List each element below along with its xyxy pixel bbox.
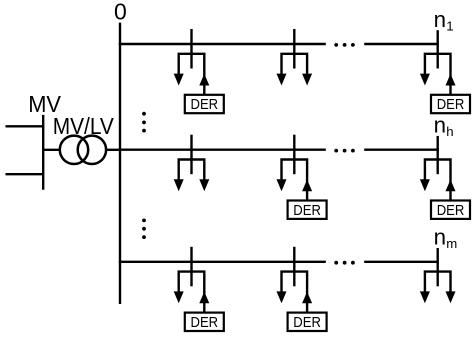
transformer primary winding	[60, 136, 88, 164]
branch bracket at feeder 1 node b	[282, 54, 308, 75]
DER box at feeder m node a	[185, 313, 224, 331]
transformer secondary winding	[78, 136, 106, 164]
feeder 1 wire: bus to gap	[119, 43, 326, 45]
end node vertical at nh	[437, 136, 439, 174]
feeder 1 ellipsis	[334, 43, 354, 47]
MV grid stub lower	[6, 173, 44, 175]
svg-text:DER: DER	[191, 315, 219, 331]
branch bracket at nm	[425, 272, 451, 293]
branch bracket at feeder h node b	[282, 160, 308, 201]
load arrow (down) right at feeder h node a	[199, 179, 209, 191]
DER box at feeder 1 node a	[185, 95, 224, 113]
svg-text:1: 1	[446, 18, 453, 33]
load arrow (down) left at feeder 1 node a	[174, 74, 184, 86]
svg-text:DER: DER	[293, 315, 321, 331]
branch bracket at feeder m node a	[179, 272, 205, 313]
DER box at n1	[431, 95, 470, 113]
branch bracket at n1	[425, 54, 451, 95]
DER injection arrow (up) at nh	[446, 180, 456, 192]
svg-text:n: n	[434, 113, 446, 138]
load arrow (down) left at feeder m node a	[174, 291, 184, 303]
svg-text:MV/LV: MV/LV	[53, 113, 115, 139]
svg-text:h: h	[446, 124, 453, 139]
DER box at nh	[431, 201, 470, 219]
DER box at feeder h node b	[288, 201, 327, 219]
svg-text:DER: DER	[437, 97, 465, 113]
feeder h wire: bus to gap	[119, 148, 326, 150]
svg-text:DER: DER	[437, 203, 465, 219]
load arrow (down) left at nm	[420, 291, 430, 303]
DER injection arrow (up) at n1	[446, 74, 456, 86]
tap wire at feeder m node b	[293, 247, 295, 286]
label n1	[434, 7, 454, 34]
branch bracket at nh	[425, 160, 451, 201]
svg-text:n: n	[434, 225, 446, 250]
vertical ellipsis (feeders 1..h)	[142, 112, 146, 133]
feeder m ellipsis	[334, 261, 354, 265]
wire: MV bus to transformer	[43, 149, 61, 151]
MV grid stub upper	[6, 125, 44, 127]
svg-text:0: 0	[114, 0, 127, 24]
load arrow (down) left at feeder h node b	[277, 179, 287, 191]
tap wire at feeder h node a	[190, 135, 192, 175]
load arrow (down) right at nm	[446, 291, 456, 303]
svg-text:DER: DER	[293, 203, 321, 219]
MV busbar	[42, 115, 44, 190]
DER injection arrow (up) at feeder m node b	[302, 292, 312, 304]
DER box at feeder m node b	[288, 313, 327, 331]
DER injection arrow (up) at feeder h node b	[302, 180, 312, 192]
main LV bus (node 0 vertical)	[119, 23, 121, 304]
tap wire at feeder m node a	[190, 247, 192, 286]
end node vertical at n1	[437, 30, 439, 68]
DER injection arrow (up) at feeder 1 node a	[199, 74, 209, 86]
feeder 1 wire: gap to end node	[364, 43, 439, 45]
tap wire at feeder 1 node b	[293, 29, 295, 69]
load arrow (down) right at feeder 1 node b	[302, 74, 312, 86]
wire: transformer to LV bus	[105, 149, 120, 151]
load arrow (down) left at feeder m node b	[277, 291, 287, 303]
feeder h ellipsis	[334, 149, 354, 153]
load arrow (down) left at n1	[420, 74, 430, 86]
feeder m wire: gap to end node	[364, 261, 439, 263]
branch bracket at feeder m node b	[282, 272, 308, 313]
load arrow (down) left at feeder h node a	[174, 179, 184, 191]
tap wire at feeder 1 node a	[190, 29, 192, 69]
tap wire at feeder h node b	[293, 135, 295, 175]
svg-text:n: n	[434, 7, 446, 32]
load arrow (down) left at feeder 1 node b	[277, 74, 287, 86]
DER injection arrow (up) at feeder m node a	[199, 292, 209, 304]
feeder m wire: bus to gap	[119, 261, 326, 263]
vertical ellipsis (feeders h..m)	[142, 219, 146, 240]
feeder h wire: gap to end node	[364, 148, 439, 150]
branch bracket at feeder 1 node a	[179, 54, 205, 95]
label nh	[434, 113, 454, 140]
label nm	[434, 225, 458, 252]
svg-text:m: m	[446, 236, 457, 251]
branch bracket at feeder h node a	[179, 160, 205, 181]
end node vertical at nm	[437, 248, 439, 286]
load arrow (down) left at nh	[420, 179, 430, 191]
svg-text:DER: DER	[191, 97, 219, 113]
